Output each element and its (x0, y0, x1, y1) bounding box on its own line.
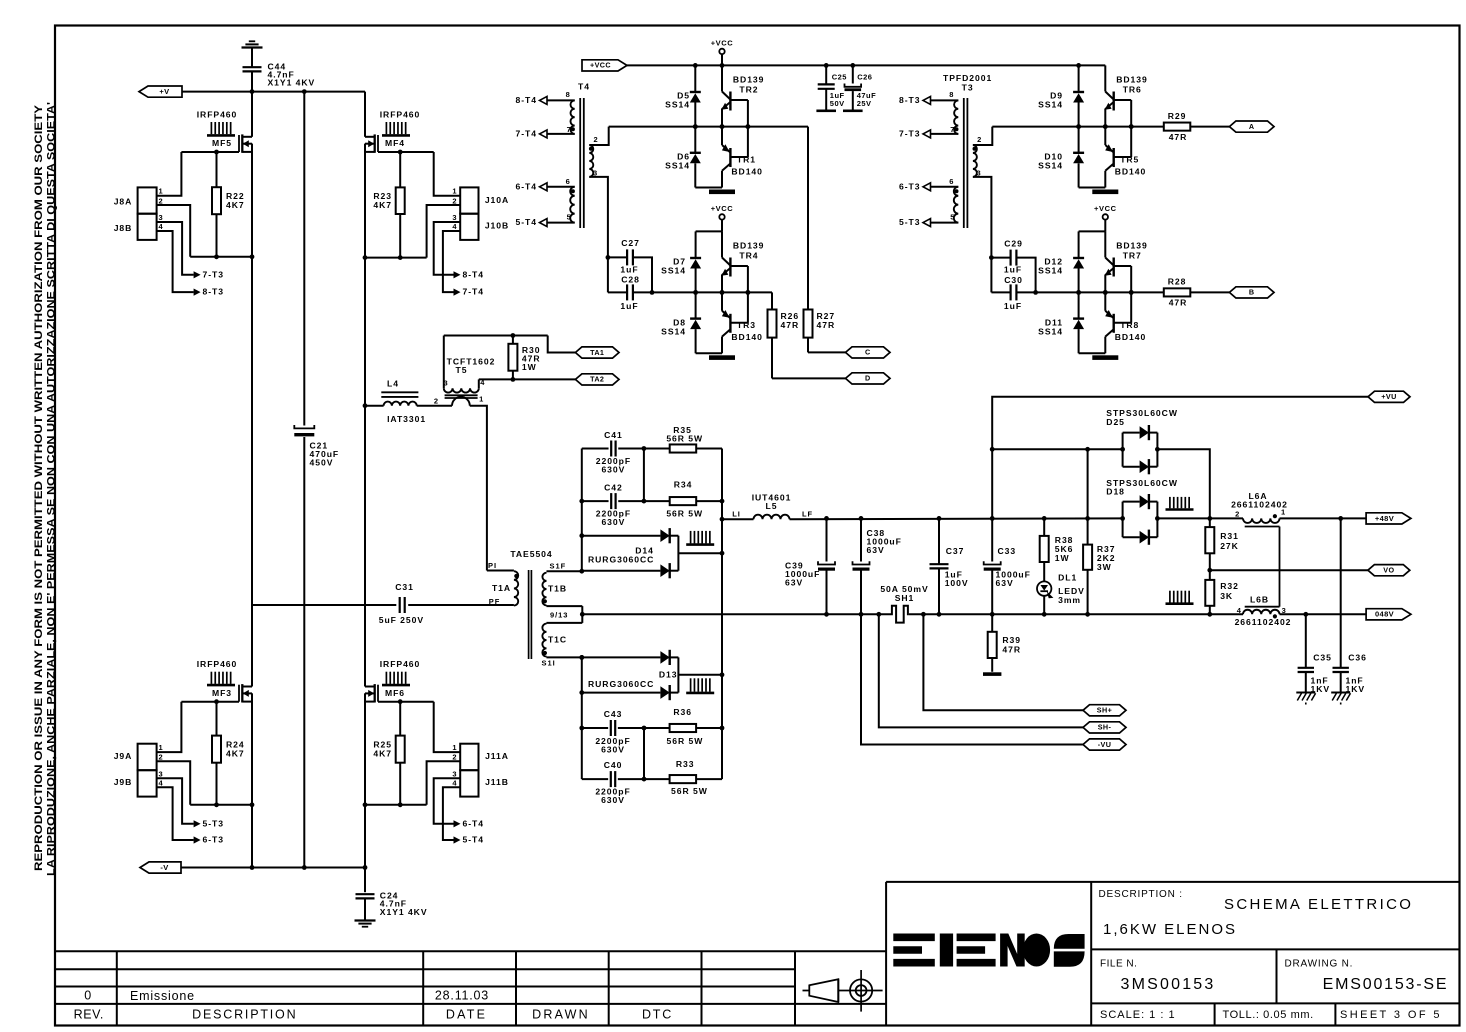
wire 048V to flag (1280, 613, 1367, 615)
ground below C36 (1331, 692, 1350, 694)
svg-text:J11A: J11A (485, 751, 509, 761)
svg-text:3: 3 (452, 769, 457, 778)
svg-text:TA1: TA1 (590, 348, 604, 357)
wire -VU drop (861, 614, 1083, 744)
svg-text:630V: 630V (601, 744, 625, 754)
svg-text:0: 0 (84, 989, 91, 1003)
svg-text:47R: 47R (1002, 644, 1021, 654)
svg-text:T5: T5 (456, 365, 468, 375)
flag TA1 (575, 347, 619, 358)
svg-text:7: 7 (567, 125, 572, 134)
wire J9 pin2 to source rail (157, 761, 191, 805)
transistor MF3 symbol (238, 685, 240, 702)
svg-text:SH-: SH- (1098, 723, 1112, 732)
wire +48 rail from LF (790, 517, 1123, 520)
svg-text:8-T4: 8-T4 (463, 269, 484, 279)
wire left bridge bus (251, 92, 253, 137)
svg-text:R32: R32 (1220, 581, 1239, 591)
svg-text:4K7: 4K7 (226, 748, 245, 758)
wire D12 feed (1079, 230, 1106, 232)
wire J10 pin1 to gate (434, 152, 461, 196)
svg-text:47R: 47R (781, 320, 800, 330)
svg-text:8-T4: 8-T4 (516, 95, 537, 105)
svg-text:C28: C28 (621, 275, 640, 285)
svg-text:X1Y1 4KV: X1Y1 4KV (268, 77, 316, 87)
svg-text:2: 2 (977, 135, 982, 144)
transistor MF6 IRFP460 heatsink (385, 672, 387, 684)
svg-text:5: 5 (950, 212, 955, 221)
capacitor C33 1000uF 63V (991, 518, 993, 561)
capacitor C26 47uF 25V (852, 65, 854, 83)
svg-text:LF: LF (802, 510, 813, 519)
svg-text:PF: PF (489, 597, 500, 606)
connector J10A (460, 187, 478, 213)
resistor R23 4K7 (399, 152, 401, 187)
svg-text:C35: C35 (1313, 652, 1332, 662)
wire 0V mid rail (582, 613, 891, 615)
svg-text:5-T4: 5-T4 (463, 834, 484, 844)
diode D8 SS14 (695, 292, 697, 318)
svg-text:2: 2 (1235, 509, 1240, 518)
svg-text:2: 2 (159, 196, 164, 205)
svg-text:50V: 50V (830, 99, 845, 108)
capacitor C36 1nF 1KV (1340, 518, 1342, 667)
ground below C26 (843, 110, 863, 113)
heatsink near D13 (690, 678, 692, 691)
svg-text:C26: C26 (857, 72, 872, 81)
svg-text:7: 7 (950, 125, 955, 134)
diode D13 RURG3060CC (582, 656, 661, 658)
wire middle bus C21 leg (303, 92, 305, 426)
svg-text:R34: R34 (674, 479, 693, 489)
svg-text:BD139: BD139 (733, 240, 765, 250)
resistor R25 4K7 (399, 702, 401, 736)
label arrow 5-T3 (194, 820, 201, 827)
wire T5 pin3 lead (443, 336, 445, 389)
svg-text:3: 3 (452, 213, 457, 222)
svg-text:R33: R33 (676, 759, 695, 769)
connector J9B (138, 770, 157, 796)
svg-text:D: D (865, 374, 871, 383)
wire J9 pin1 to gate (157, 702, 182, 752)
svg-text:T3: T3 (962, 83, 974, 93)
resistor R27 47R (807, 127, 809, 310)
capacitor C38 1000uF 63V (860, 518, 862, 561)
svg-text:FILE N.: FILE N. (1100, 959, 1137, 970)
resistor R39 47R (991, 614, 993, 632)
svg-text:7-T3: 7-T3 (203, 269, 224, 279)
svg-text:IRFP460: IRFP460 (197, 109, 238, 119)
wire S1F lead (547, 570, 582, 572)
svg-text:J10A: J10A (485, 195, 509, 205)
flag +48V (1366, 513, 1411, 524)
capacitor C40 2200pF 630V (610, 771, 612, 787)
svg-text:IAT3301: IAT3301 (387, 414, 426, 424)
svg-text:J10B: J10B (485, 220, 509, 230)
wire J11 pin4 to 5-T4 (443, 787, 460, 840)
svg-text:1: 1 (452, 743, 457, 752)
svg-text:A: A (1249, 122, 1255, 131)
svg-text:3K: 3K (1220, 591, 1233, 601)
wire VO line (1210, 569, 1368, 571)
svg-text:X1Y1 4KV: X1Y1 4KV (380, 907, 428, 917)
base link TR4/TR3 (730, 265, 748, 267)
svg-text:2661102402: 2661102402 (1235, 617, 1292, 627)
svg-text:R36: R36 (673, 707, 692, 717)
transistor TR6 BD139 NPN (1104, 65, 1106, 91)
svg-text:T1C: T1C (548, 634, 567, 644)
svg-text:Emissione: Emissione (130, 989, 195, 1003)
svg-text:SS14: SS14 (1038, 100, 1063, 110)
wire L4 to T5 pin2 (417, 405, 452, 407)
capacitor C39 1000uF 63V (826, 518, 828, 561)
svg-text:5-T3: 5-T3 (899, 217, 920, 227)
wire J10 pin3 to 8-T4 (434, 222, 461, 275)
svg-text:1W: 1W (522, 362, 537, 372)
svg-text:47R: 47R (1169, 132, 1188, 142)
wire T3 pin3 down to C29 (973, 177, 992, 258)
svg-text:2: 2 (594, 135, 599, 144)
label arrow 7-T4 (454, 289, 461, 296)
ground bar (1079, 187, 1106, 189)
svg-text:T1A: T1A (492, 583, 511, 593)
capacitor C29 1uF (991, 257, 1010, 259)
capacitor C37 1uF 100V (938, 518, 940, 564)
svg-text:SS14: SS14 (665, 160, 690, 170)
svg-text:6: 6 (566, 177, 571, 186)
svg-text:25V: 25V (857, 99, 872, 108)
svg-text:R29: R29 (1168, 111, 1187, 121)
wire J8 pin1 to gate (157, 152, 182, 196)
svg-text:TAE5504: TAE5504 (510, 549, 552, 559)
wire C41 top rail (582, 448, 609, 450)
capacitor C24 (364, 868, 366, 893)
wire driver output rail upper T4 (609, 126, 808, 128)
svg-text:D13: D13 (659, 670, 678, 680)
svg-text:TCFT1602: TCFT1602 (447, 356, 496, 366)
L6 coupling bars (1245, 526, 1280, 528)
svg-text:1uF: 1uF (620, 264, 638, 274)
base link TR7/TR8 (1114, 265, 1132, 267)
resistor R32 3K (1209, 570, 1211, 580)
ELENOS logo (893, 934, 1084, 967)
wire MF3 source rail (190, 804, 252, 806)
svg-text:C33: C33 (998, 546, 1017, 556)
transistor MF3 IRFP460 heatsink (210, 672, 212, 684)
connector J8A (138, 187, 157, 213)
svg-text:BD140: BD140 (731, 166, 763, 176)
svg-text:630V: 630V (601, 464, 625, 474)
wire +VCC rail corner into TR6 (1104, 64, 1106, 66)
svg-text:+VCC: +VCC (711, 204, 734, 213)
svg-text:TPFD2001: TPFD2001 (943, 73, 992, 83)
diode D14 RURG3060CC (582, 535, 661, 537)
ground bar (695, 187, 722, 189)
revision table grid (55, 950, 886, 952)
svg-text:DTC: DTC (642, 1007, 673, 1021)
wire T5 pin1 down to T1 PI (470, 406, 487, 571)
svg-text:47R: 47R (817, 320, 836, 330)
label arrow 8-T4 (454, 271, 461, 278)
svg-text:B: B (1249, 288, 1255, 297)
svg-text:3W: 3W (1097, 562, 1112, 572)
wire L4 feed (363, 403, 368, 408)
wire MF5 gate rail (181, 151, 239, 153)
svg-text:BD140: BD140 (1115, 332, 1147, 342)
title block grid (886, 881, 1459, 883)
svg-text:SH1: SH1 (895, 593, 915, 603)
wire C43-C40 mid vertical (643, 728, 645, 779)
wire driver output rail upper T3 (992, 126, 1164, 128)
heatsink near D18 (1169, 497, 1171, 508)
svg-text:7-T4: 7-T4 (516, 128, 537, 138)
wire MF5 source rail (190, 256, 252, 258)
svg-text:47R: 47R (1169, 298, 1188, 308)
svg-text:2: 2 (434, 396, 439, 405)
svg-text:7-T4: 7-T4 (463, 287, 484, 297)
transistor MF6 symbol (377, 685, 379, 702)
svg-text:630V: 630V (601, 795, 625, 805)
label arrows 8-T4 7-T4 6-T4 5-T4 (547, 99, 575, 101)
LED DL1 LEDV 3mm (1037, 581, 1051, 595)
flag TA2 (575, 374, 619, 385)
wire snubber mid vertical (643, 449, 645, 502)
svg-text:C37: C37 (946, 546, 965, 556)
svg-text:4: 4 (452, 222, 457, 231)
wire to flag D (772, 377, 846, 379)
transformer T4 (579, 98, 581, 228)
svg-text:DRAWN: DRAWN (532, 1007, 590, 1021)
resistor R37 2K2 3W (1087, 449, 1089, 544)
svg-text:IRFP460: IRFP460 (197, 659, 238, 669)
svg-text:2: 2 (452, 196, 457, 205)
winding T1A primary (514, 571, 518, 605)
transistor MF5 symbol (238, 135, 240, 152)
svg-text:REV.: REV. (74, 1007, 104, 1021)
wire +48 rail D18 to L6A (1157, 517, 1243, 519)
flag VO (1368, 565, 1410, 576)
svg-text:VO: VO (1383, 566, 1394, 575)
svg-text:1: 1 (479, 394, 484, 403)
svg-text:4: 4 (159, 222, 164, 231)
connector J10B (460, 214, 478, 240)
svg-text:3: 3 (159, 213, 164, 222)
svg-text:RURG3060CC: RURG3060CC (588, 555, 654, 565)
diode D9 SS14 (1078, 65, 1080, 92)
svg-text:MF4: MF4 (385, 138, 405, 148)
flag B (1229, 287, 1274, 298)
svg-text:SS14: SS14 (665, 100, 690, 110)
wire TA2 line (479, 378, 576, 380)
transistor MF4 IRFP460 heatsink (385, 122, 387, 134)
svg-text:100V: 100V (945, 578, 969, 588)
capacitor C25 1uF 50V (825, 65, 827, 84)
flag A (1229, 121, 1274, 132)
flag +VU (1368, 391, 1410, 402)
svg-text:1,6KW ELENOS: 1,6KW ELENOS (1103, 921, 1237, 938)
resistor R35 56R 5W (670, 444, 697, 452)
svg-text:SCALE: 1 : 1: SCALE: 1 : 1 (1100, 1009, 1176, 1021)
svg-text:1: 1 (1281, 508, 1286, 517)
svg-text:J11B: J11B (485, 777, 509, 787)
svg-text:56R 5W: 56R 5W (666, 508, 703, 518)
svg-text:SHEET 3 OF 5: SHEET 3 OF 5 (1340, 1009, 1442, 1021)
capacitor C27 1uF (608, 256, 627, 258)
wire to flag B (1190, 291, 1229, 293)
transistor MF5 IRFP460 heatsink (210, 122, 212, 134)
label arrow 7-T3 (194, 271, 201, 278)
wire J10 pin2 to source rail (427, 205, 461, 258)
svg-text:1uF: 1uF (620, 301, 638, 311)
wire SH- drop (879, 614, 1083, 727)
svg-text:LA RIPRODUZIONE, ANCHE PARZIAL: LA RIPRODUZIONE, ANCHE PARZIALE, NON E' … (44, 102, 57, 876)
svg-text:L6B: L6B (1250, 595, 1269, 605)
capacitor C43 2200pF 630V (610, 720, 612, 736)
svg-text:C43: C43 (604, 709, 623, 719)
svg-text:4K7: 4K7 (226, 200, 245, 210)
transistor TR3 BD140 PNP (721, 292, 723, 310)
wire MF6 gate rail (378, 701, 434, 703)
diode D10 SS14 (1078, 127, 1080, 153)
svg-text:+VCC: +VCC (1094, 204, 1117, 213)
heatsink near D14 (690, 531, 692, 544)
resistor R26 47R (771, 292, 773, 309)
svg-text:R28: R28 (1168, 277, 1187, 287)
connector J9A (138, 744, 157, 771)
svg-text:C: C (865, 348, 871, 357)
svg-text:R31: R31 (1220, 531, 1239, 541)
wire +V rail (182, 91, 365, 93)
svg-text:C27: C27 (621, 238, 640, 248)
svg-text:C30: C30 (1004, 275, 1023, 285)
svg-text:RURG3060CC: RURG3060CC (588, 679, 654, 689)
resistor R34 56R 5W (670, 497, 697, 505)
diode D6 SS14 (694, 127, 696, 153)
svg-text:1uF: 1uF (1004, 264, 1022, 274)
svg-text:MF5: MF5 (212, 138, 232, 148)
ground below C35 (1296, 692, 1315, 694)
svg-text:DESCRIPTION: DESCRIPTION (192, 1007, 297, 1021)
wire driver output rail lower T4 (652, 291, 772, 293)
svg-text:TR3: TR3 (737, 320, 756, 330)
transistor MF4 symbol (377, 135, 379, 152)
svg-text:63V: 63V (867, 545, 885, 555)
svg-text:D25: D25 (1106, 417, 1125, 427)
heatsink near R32 (1169, 591, 1171, 603)
svg-text:R39: R39 (1002, 635, 1021, 645)
svg-text:SS14: SS14 (661, 326, 686, 336)
wire to flag A (1190, 126, 1229, 128)
svg-text:TA2: TA2 (590, 375, 604, 384)
ground below C25 (816, 110, 836, 113)
transistor TR7 BD139 NPN (1104, 231, 1106, 257)
svg-text:C36: C36 (1348, 652, 1367, 662)
svg-text:9/13: 9/13 (550, 610, 568, 619)
capacitor C30 1uF (990, 258, 992, 293)
capacitor C44 (243, 66, 262, 68)
svg-text:4K7: 4K7 (373, 200, 392, 210)
svg-text:6-T4: 6-T4 (463, 818, 484, 828)
wire C40 rail (582, 778, 608, 780)
svg-text:TR2: TR2 (739, 85, 758, 95)
svg-text:L4: L4 (387, 378, 399, 388)
wire T3 pin2 to driver rail (973, 127, 992, 145)
wire +VCC rail (627, 64, 1105, 66)
wire T5 pin4 lead (478, 379, 480, 388)
resistor R22 4K7 (216, 152, 218, 187)
svg-text:1: 1 (159, 743, 164, 752)
svg-text:REPRODUCTION OR ISSUE IN ANY F: REPRODUCTION OR ISSUE IN ANY FORM IS NOT… (31, 105, 44, 871)
wire C42 rail (582, 500, 609, 502)
svg-text:SS14: SS14 (1038, 160, 1063, 170)
svg-text:5: 5 (567, 212, 572, 221)
svg-text:DESCRIPTION :: DESCRIPTION : (1099, 889, 1183, 900)
wire J8 pin2 to source rail (157, 205, 191, 257)
svg-text:DATE: DATE (446, 1007, 487, 1021)
svg-text:T4: T4 (578, 81, 590, 91)
resistor R24 4K7 (216, 702, 218, 736)
wire -V rail (181, 867, 365, 869)
winding T1C (547, 622, 583, 624)
svg-text:TR8: TR8 (1120, 320, 1139, 330)
flag 048V (1366, 609, 1411, 620)
svg-text:7-T3: 7-T3 (899, 128, 920, 138)
svg-text:TR1: TR1 (737, 154, 756, 164)
capacitor C21 (294, 425, 314, 428)
svg-text:+VCC: +VCC (590, 61, 611, 70)
diode D11 SS14 (1078, 292, 1080, 318)
svg-text:-VU: -VU (1098, 740, 1112, 749)
resistor R29 47R (1164, 123, 1191, 131)
base link TR2/TR1 (730, 99, 748, 101)
flag SH- (1083, 722, 1126, 733)
svg-text:LI: LI (732, 510, 741, 519)
label arrow 6-T3 (194, 836, 201, 843)
svg-text:1W: 1W (1055, 553, 1070, 563)
svg-text:C31: C31 (395, 582, 414, 592)
wire +48V to flag (1280, 517, 1367, 519)
svg-text:D18: D18 (1106, 486, 1125, 496)
connector J11A (460, 744, 478, 771)
svg-text:56R 5W: 56R 5W (666, 434, 703, 444)
wire J11 pin1 to gate (434, 702, 461, 752)
svg-text:C25: C25 (832, 72, 847, 81)
svg-text:56R 5W: 56R 5W (671, 786, 708, 796)
capacitor C35 1nF 1KV (1305, 614, 1307, 668)
svg-text:MF3: MF3 (212, 688, 232, 698)
svg-text:PI: PI (488, 561, 497, 570)
ground below R39 (983, 672, 1001, 676)
svg-text:BD140: BD140 (731, 332, 763, 342)
wire MF4 gate rail (378, 151, 434, 153)
svg-text:S1I: S1I (542, 659, 556, 668)
svg-text:6-T3: 6-T3 (203, 834, 224, 844)
svg-text:630V: 630V (601, 517, 625, 527)
svg-text:8-T3: 8-T3 (203, 287, 224, 297)
resistor R31 27K (1205, 527, 1214, 553)
wire snubber left bus (581, 449, 583, 572)
svg-text:IRFP460: IRFP460 (380, 659, 421, 669)
svg-text:8: 8 (949, 90, 954, 99)
svg-text:EMS00153-SE: EMS00153-SE (1323, 976, 1449, 993)
diode D7 SS14 (695, 231, 697, 258)
flag +VCC (582, 60, 627, 71)
svg-text:BD139: BD139 (733, 74, 765, 84)
wire T4 pin3 down to C27 (589, 177, 608, 258)
svg-text:3mm: 3mm (1058, 595, 1081, 605)
svg-text:TR5: TR5 (1120, 154, 1139, 164)
resistor R28 47R (1164, 288, 1191, 296)
